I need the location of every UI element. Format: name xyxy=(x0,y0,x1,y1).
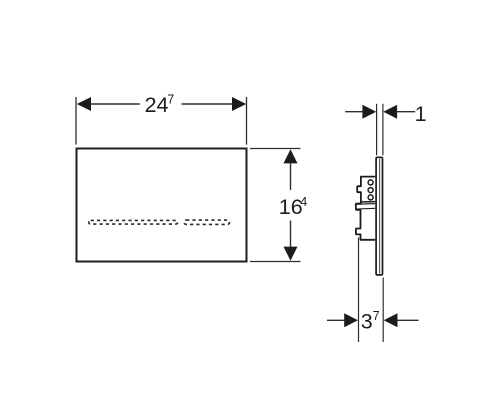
side view glass plate outline xyxy=(376,157,382,275)
side view block divider line upper xyxy=(361,201,375,203)
svg-text:7: 7 xyxy=(373,309,380,323)
width dimension arrow left xyxy=(77,97,91,111)
height dimension extension line bottom xyxy=(250,261,301,263)
width dimension extension line right xyxy=(246,97,248,145)
side view mount block outline xyxy=(356,177,375,240)
svg-text:1: 1 xyxy=(415,102,427,126)
depth dimension arrow left xyxy=(344,313,358,327)
svg-text:16: 16 xyxy=(279,195,303,219)
width dimension line left segment xyxy=(88,103,140,105)
front view sensor slot right (dashed) xyxy=(184,220,230,224)
depth dimension arrow right xyxy=(384,313,398,327)
front view sensor slot left (dashed) xyxy=(89,220,178,224)
depth dimension extension line left xyxy=(358,238,360,343)
height dimension line lower segment xyxy=(290,221,292,251)
thickness dimension extension line right xyxy=(382,104,384,156)
side view screw circle middle xyxy=(368,188,373,193)
side view screw circle top xyxy=(368,180,373,185)
width dimension arrow right xyxy=(232,97,246,111)
height dimension arrow up xyxy=(284,149,298,163)
thickness dimension extension line left xyxy=(376,104,378,156)
side view block bracket line b xyxy=(357,207,376,210)
width dimension line right segment xyxy=(182,103,235,105)
height dimension line upper segment xyxy=(290,160,292,190)
svg-text:7: 7 xyxy=(167,93,174,107)
side view glass plate inner line xyxy=(379,159,381,274)
thickness dimension arrow left xyxy=(362,105,376,119)
thickness dimension tail right xyxy=(396,111,415,113)
depth dimension extension line right xyxy=(382,278,384,343)
svg-text:24: 24 xyxy=(145,93,169,117)
side view block bracket line a xyxy=(357,203,376,206)
front view plate outline xyxy=(77,149,247,262)
svg-text:4: 4 xyxy=(300,195,307,209)
svg-text:3: 3 xyxy=(361,310,373,334)
side view screw circle bottom xyxy=(368,195,373,200)
depth dimension tail left xyxy=(327,319,345,321)
thickness dimension arrow right xyxy=(383,105,397,119)
width dimension extension line left xyxy=(75,97,77,145)
depth dimension tail right xyxy=(397,319,419,321)
thickness dimension tail left xyxy=(345,111,363,113)
height dimension extension line top xyxy=(250,148,301,150)
height dimension arrow down xyxy=(284,247,298,261)
